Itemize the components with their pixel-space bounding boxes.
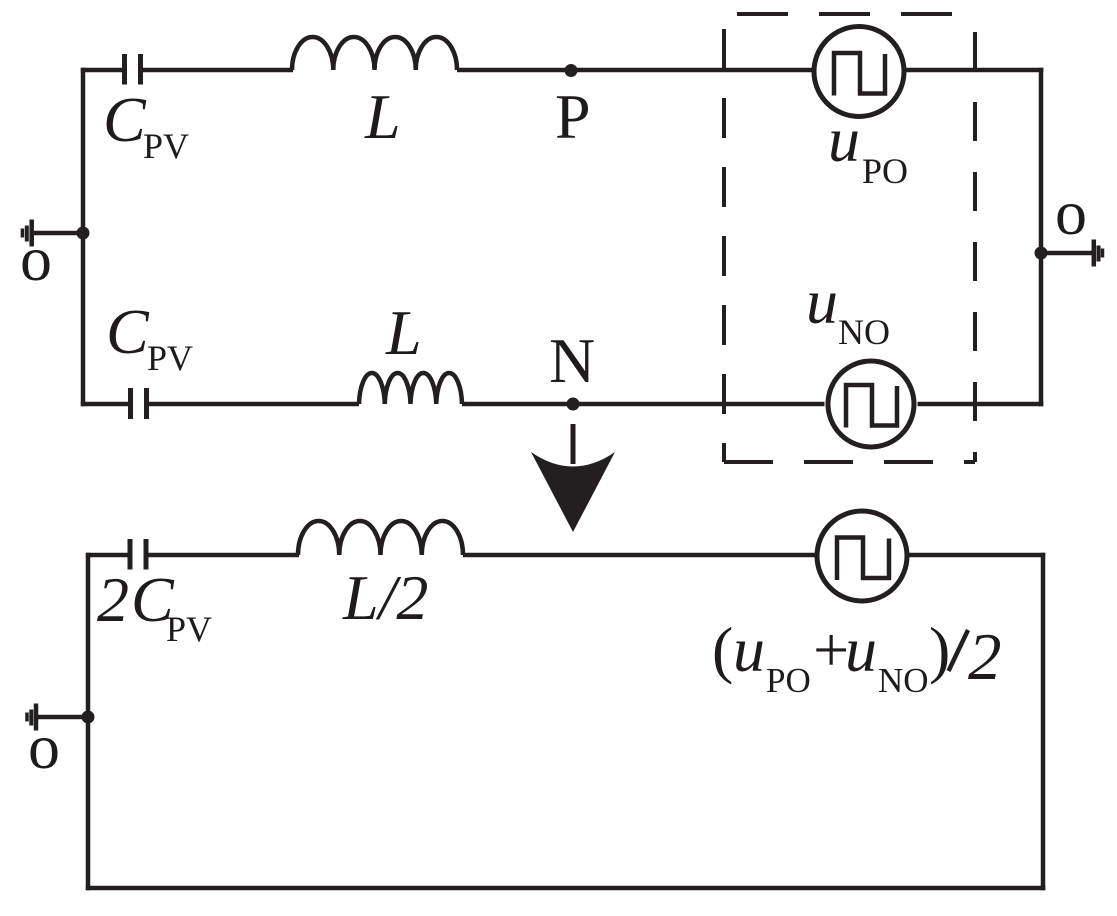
svg-text:u: u — [806, 266, 838, 337]
ground symbol (left, top circuit) — [29, 220, 34, 247]
svg-text:(: ( — [712, 614, 733, 685]
svg-text:N: N — [549, 325, 595, 396]
svg-text:PO: PO — [766, 661, 811, 700]
wire: bottom circuit left vertical — [86, 553, 91, 891]
source u_NO circle — [828, 361, 914, 447]
source circle (bottom circuit) — [817, 511, 907, 601]
node joint dot at right o (top circuit) — [1035, 247, 1048, 260]
svg-text:o: o — [20, 223, 52, 294]
node N junction dot — [567, 398, 580, 411]
node joint dot at left o (top circuit) — [77, 227, 90, 240]
svg-text:u: u — [733, 614, 765, 685]
dashed box around sources — [724, 14, 975, 462]
svg-text:PV: PV — [143, 126, 189, 166]
capacitor C_PV (lower, top circuit) — [131, 388, 147, 419]
wire: inductor to source u_PO through node P — [457, 68, 812, 73]
square-wave icon inside bottom source — [837, 538, 889, 581]
square-wave icon inside u_PO — [834, 53, 885, 96]
ground symbol (bottom circuit) — [34, 704, 39, 731]
svg-text:C: C — [106, 296, 150, 367]
wire: top circuit left vertical (o node to corners) — [81, 68, 86, 407]
svg-text:u: u — [845, 614, 877, 685]
svg-text:L/2: L/2 — [342, 562, 428, 633]
arrow shaft — [571, 424, 576, 464]
inductor L (top) — [292, 37, 457, 70]
ground wire (right, node o of top circuit) — [1041, 251, 1092, 256]
ground symbol (right, top circuit) — [1092, 240, 1097, 267]
svg-text:L: L — [385, 297, 422, 368]
wire: source u_NO to node N to inductor — [462, 402, 825, 407]
wire: bottom circuit top, left corner to capacitor — [86, 553, 128, 558]
wire: source to top-right corner (bottom circuit) — [909, 553, 1046, 558]
svg-text:P: P — [555, 81, 591, 152]
wire: capacitor to inductor (bottom circuit) — [149, 553, 300, 558]
capacitor 2C_PV (bottom circuit) — [130, 539, 146, 570]
wire: capacitor to inductor (top) — [143, 68, 293, 73]
svg-text:): ) — [929, 614, 950, 685]
source u_PO circle — [814, 27, 904, 117]
inductor L (lower, top circuit) — [359, 373, 462, 404]
wire: bottom of top circuit, right corner to source u_NO — [918, 402, 1044, 407]
ground wire (node o of bottom circuit) — [38, 715, 88, 720]
wire: bottom circuit right vertical — [1041, 553, 1046, 891]
wire: inductor to source (bottom circuit) — [463, 553, 815, 558]
svg-text:o: o — [28, 711, 60, 782]
node joint dot at o (bottom circuit) — [82, 711, 95, 724]
wire: top circuit right vertical — [1039, 68, 1044, 407]
svg-text:L: L — [364, 81, 401, 152]
svg-text:PV: PV — [166, 609, 212, 649]
wire: bottom circuit bottom side — [86, 886, 1046, 891]
node P junction dot — [565, 64, 578, 77]
capacitor C_PV (top) — [125, 54, 141, 85]
wire: lower inductor to capacitor (bottom of top circuit) — [149, 402, 359, 407]
ground wire (left, node o of top circuit) — [34, 231, 83, 236]
wire: source u_PO to top-right corner — [906, 68, 1044, 73]
svg-text:PO: PO — [862, 151, 908, 191]
square-wave icon inside u_NO — [846, 385, 897, 428]
svg-text:NO: NO — [838, 312, 890, 352]
svg-text:PV: PV — [147, 338, 193, 378]
arrowhead of transform arrow — [531, 452, 615, 532]
svg-text:C: C — [103, 84, 147, 155]
wire: lower capacitor to left corner — [81, 402, 128, 407]
wire: top wire, left corner to capacitor — [81, 68, 122, 73]
inductor L/2 (bottom circuit) — [298, 521, 463, 555]
svg-text:NO: NO — [878, 661, 929, 700]
svg-text:o: o — [1055, 177, 1087, 248]
svg-text:2: 2 — [968, 620, 1002, 694]
svg-text:2: 2 — [97, 564, 129, 635]
svg-text:u: u — [828, 104, 860, 175]
